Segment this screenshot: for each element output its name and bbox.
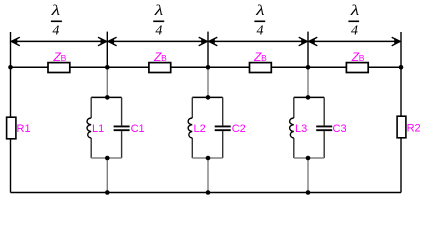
wire stub rail to tank 2 — [207, 67, 209, 97]
tick node 4 — [307, 32, 309, 68]
label Z_B 4 — [351, 50, 365, 64]
junction dots top rail — [8, 65, 403, 70]
svg-text:R1: R1 — [17, 123, 31, 135]
svg-text:C1: C1 — [131, 123, 145, 135]
LC tank 1 outline — [91, 97, 121, 158]
LC tank 3 outline — [294, 97, 324, 158]
svg-text:L3: L3 — [295, 123, 307, 135]
svg-text:4: 4 — [155, 24, 162, 39]
svg-text:B: B — [161, 53, 167, 63]
wire left vertical — [10, 32, 12, 193]
tick node 3 — [207, 32, 209, 68]
wire top rail — [11, 66, 402, 68]
svg-text:L1: L1 — [92, 123, 104, 135]
label lambda/4 segment 2 — [153, 2, 164, 39]
junction dots tank bottoms — [105, 156, 310, 161]
svg-text:C3: C3 — [333, 123, 347, 135]
inductor L2 — [188, 118, 192, 138]
wire stub tank 1 to bottom rail — [106, 158, 108, 193]
inductor L1 — [87, 118, 91, 138]
svg-text:B: B — [261, 53, 267, 63]
resistor R2 — [397, 116, 406, 138]
svg-text:B: B — [61, 53, 67, 63]
wire stub tank 3 to bottom rail — [307, 158, 309, 193]
wire stub rail to tank 1 — [106, 67, 108, 97]
inductor L3 — [290, 118, 294, 138]
wire stub rail to tank 3 — [307, 67, 309, 97]
transmission line section box 2 — [149, 63, 171, 73]
junction dots tank tops — [105, 95, 310, 100]
svg-text:4: 4 — [351, 24, 358, 39]
capacitor C2 — [215, 126, 231, 130]
transmission line section box 4 — [346, 63, 368, 73]
tick node 2 — [106, 32, 108, 68]
svg-text:λ: λ — [51, 2, 61, 18]
label lambda/4 segment 4 — [348, 2, 359, 39]
svg-text:B: B — [359, 53, 365, 63]
wire right vertical — [400, 32, 402, 193]
capacitor C3 — [316, 126, 332, 130]
capacitor C1 — [114, 126, 130, 130]
resistor R1 — [7, 117, 16, 139]
svg-text:L2: L2 — [194, 123, 206, 135]
svg-text:R2: R2 — [407, 123, 421, 135]
svg-text:λ: λ — [255, 2, 265, 18]
svg-text:C2: C2 — [232, 123, 246, 135]
svg-text:4: 4 — [52, 24, 59, 39]
dimension arrow 3 — [209, 37, 307, 45]
svg-text:λ: λ — [154, 2, 164, 18]
wire stub tank 2 to bottom rail — [207, 158, 209, 193]
svg-text:λ: λ — [350, 2, 360, 18]
transmission line section box 1 — [48, 63, 70, 73]
label lambda/4 segment 3 — [254, 2, 265, 39]
label lambda/4 segment 1 — [51, 2, 62, 39]
dimension arrow 4 — [309, 37, 400, 45]
junction dots bottom rail — [105, 190, 310, 195]
svg-text:4: 4 — [257, 24, 264, 39]
dimension arrow 1 — [11, 37, 106, 45]
wire bottom rail — [11, 192, 402, 194]
transmission line section box 3 — [250, 63, 272, 73]
label Z_B 3 — [253, 50, 267, 64]
dimension arrow 2 — [108, 37, 207, 45]
label Z_B 1 — [53, 50, 67, 64]
LC tank 2 outline — [192, 97, 222, 158]
label Z_B 2 — [153, 50, 167, 64]
